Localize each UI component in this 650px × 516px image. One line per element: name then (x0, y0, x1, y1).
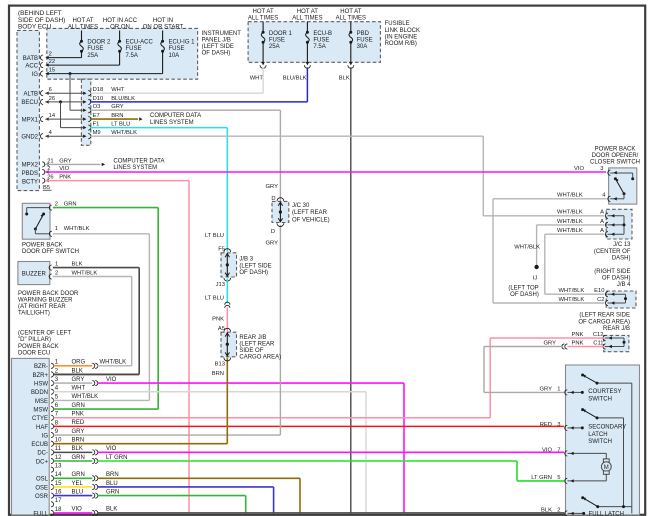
svg-text:14: 14 (55, 472, 62, 478)
svg-text:IG: IG (42, 433, 49, 439)
svg-text:E10: E10 (594, 288, 604, 294)
svg-text:DOOR ECU: DOOR ECU (18, 350, 50, 356)
wire VIO: PBDS to opener/closer switch pin 3 (45, 171, 606, 173)
svg-text:GND2: GND2 (21, 134, 38, 140)
wire RED: ECU pin 8 HAF to secondary latch switch (53, 425, 564, 427)
wire GRN: off switch pin 2 to ECU MSW (53, 207, 158, 209)
svg-text:HSW: HSW (34, 382, 48, 388)
svg-text:OF DASH): OF DASH) (202, 51, 231, 57)
svg-text:16: 16 (55, 490, 62, 496)
svg-text:BLU: BLU (72, 489, 84, 495)
svg-text:25A: 25A (87, 53, 98, 59)
wire WHT: ECU pin 4 BDDN down to bottom (53, 391, 366, 393)
J/B 4 pin E10 (605, 292, 608, 297)
buzzer (18, 262, 50, 285)
svg-text:25A: 25A (269, 44, 280, 50)
svg-text:(LEFT REAR SIDE: (LEFT REAR SIDE (579, 313, 630, 319)
svg-text:4: 4 (602, 193, 606, 199)
rear J/B pin C11 (603, 344, 606, 349)
svg-text:DASH): DASH) (612, 255, 631, 261)
J/B pin F1 LT BLU (83, 126, 86, 129)
svg-text:ECU-B: ECU-B (313, 31, 332, 37)
latch pin 2 (565, 511, 568, 516)
svg-text:J13: J13 (216, 282, 225, 288)
svg-text:REAR J/B: REAR J/B (239, 335, 266, 341)
J/B pin O3 GRY (83, 109, 86, 112)
latch pin 3 (565, 425, 568, 430)
svg-text:PNK: PNK (59, 175, 71, 181)
svg-text:D18: D18 (93, 87, 104, 93)
svg-text:2: 2 (55, 368, 59, 374)
svg-text:2: 2 (55, 202, 58, 208)
svg-text:YEL: YEL (72, 481, 84, 487)
svg-text:M9: M9 (93, 130, 101, 136)
svg-text:3: 3 (600, 166, 603, 172)
svg-text:(RIGHT SIDE: (RIGHT SIDE (594, 269, 630, 275)
svg-text:WHT/BLK: WHT/BLK (72, 394, 99, 400)
svg-text:GRY: GRY (540, 386, 553, 392)
wire: BECU branch down to F1 (60, 102, 62, 128)
latch inner rail (secondary/full) (597, 417, 624, 419)
svg-text:OF DASH): OF DASH) (239, 270, 268, 276)
svg-text:J/C 13: J/C 13 (613, 242, 631, 248)
wire GRY: O3 to J/C 30 (90, 109, 280, 111)
wire WHT/BLK: M9 to J/C 13 pin A (90, 135, 483, 137)
wire WHT/BLK: J/C 13 A to eyelet IJ (537, 224, 605, 226)
junction J/B 4 (606, 291, 636, 308)
svg-text:PANEL J/B: PANEL J/B (202, 37, 231, 43)
wire WHT/BLK: buzzer pin 2 to ECU BZR- (53, 276, 132, 278)
svg-text:ALL TIMES: ALL TIMES (336, 16, 366, 22)
svg-text:ACC: ACC (25, 63, 38, 69)
svg-text:SWITCH: SWITCH (588, 439, 612, 445)
wire: ALTB 6 to D18 (45, 92, 83, 94)
svg-text:TAILLIGHT): TAILLIGHT) (18, 311, 50, 317)
svg-text:FULL LATCH: FULL LATCH (589, 512, 624, 516)
fuse DOOR 2 25A (81, 31, 83, 42)
svg-text:BLU/BLK: BLU/BLK (111, 96, 135, 102)
svg-text:OF DASH): OF DASH) (510, 292, 539, 298)
svg-text:7.5A: 7.5A (126, 53, 138, 59)
svg-text:LT GRN: LT GRN (531, 475, 552, 481)
svg-text:1: 1 (55, 262, 58, 268)
svg-text:VIO: VIO (106, 446, 117, 452)
wire WHT/BLK: J/C 13 A to J/B 4 E10 (545, 233, 605, 235)
svg-text:GRY: GRY (111, 104, 124, 110)
wire VIO/BLK: ECU pin 18 FULL to full latch switch (53, 512, 92, 514)
svg-text:18: 18 (55, 507, 62, 513)
switch pin 2 (49, 205, 52, 210)
svg-text:FULL: FULL (33, 511, 48, 516)
svg-text:1: 1 (55, 226, 58, 232)
svg-text:BLK: BLK (339, 75, 350, 81)
svg-text:WHT: WHT (111, 87, 125, 93)
svg-text:BRN: BRN (72, 437, 85, 443)
svg-text:26: 26 (47, 175, 53, 181)
svg-text:E7: E7 (93, 113, 100, 119)
wire PNK: C12 row (490, 337, 604, 339)
svg-text:VIO: VIO (574, 166, 584, 172)
svg-text:5: 5 (557, 475, 560, 481)
svg-text:RED: RED (540, 422, 552, 428)
svg-text:ALL TIMES: ALL TIMES (68, 25, 98, 31)
svg-text:BRN: BRN (111, 113, 123, 119)
svg-text:OR ON: OR ON (110, 25, 130, 31)
svg-text:"D" PILLAR): "D" PILLAR) (18, 337, 51, 343)
J/C 13 pin A (605, 222, 608, 227)
wire: BECU 26 to D10 with junction (45, 101, 83, 103)
svg-text:PNK: PNK (72, 412, 84, 418)
wire YEL/BLU: ECU pin 15 OSE down to bottom (53, 486, 92, 488)
svg-text:LINES SYSTEM: LINES SYSTEM (150, 120, 194, 126)
svg-text:FUSE: FUSE (357, 38, 373, 44)
svg-text:2: 2 (49, 52, 52, 58)
power back door latch assembly (566, 365, 640, 515)
svg-text:GRN: GRN (106, 489, 119, 495)
svg-text:FUSE: FUSE (313, 38, 329, 44)
J/C 13 pin A (605, 213, 608, 218)
wire GRY: ECU pin 9 IG to J/C 30 (53, 434, 280, 436)
J/B 4 pin C2 (605, 300, 608, 305)
svg-text:WHT: WHT (72, 386, 86, 392)
body ECU connector box (17, 31, 39, 191)
svg-text:(AT RIGHT REAR: (AT RIGHT REAR (18, 304, 66, 310)
svg-text:GRY: GRY (544, 340, 557, 346)
latch inner rail (courtesy) (597, 382, 632, 384)
rear J/B pin C12 (603, 335, 606, 340)
svg-text:A: A (600, 210, 604, 216)
svg-text:FUSE: FUSE (269, 38, 285, 44)
svg-text:22: 22 (49, 59, 55, 65)
svg-text:FUSE: FUSE (169, 46, 185, 52)
svg-text:PNK: PNK (572, 332, 584, 338)
wire: GND2 4 to M9 (45, 135, 83, 137)
J/B pin D18 WHT (83, 92, 86, 95)
svg-text:BATB: BATB (23, 56, 38, 62)
svg-text:HOT AT: HOT AT (253, 9, 274, 15)
svg-text:FUSIBLE: FUSIBLE (385, 21, 410, 27)
svg-text:6: 6 (49, 87, 52, 93)
svg-text:GRY: GRY (72, 429, 85, 435)
svg-text:BLU/BLK: BLU/BLK (283, 75, 307, 81)
svg-text:LINES SYSTEM: LINES SYSTEM (113, 165, 157, 171)
svg-text:BRN: BRN (212, 371, 224, 377)
wire PNK: BCTY down to bottom (45, 180, 189, 182)
svg-text:OSL: OSL (36, 477, 49, 483)
wire PNK: inline connector down to rear J/B A5 (226, 307, 228, 331)
fusible link output connector (261, 62, 264, 65)
svg-text:VIO: VIO (106, 377, 117, 383)
svg-text:15: 15 (55, 481, 62, 487)
svg-text:7.5A: 7.5A (313, 44, 325, 50)
svg-text:7: 7 (55, 412, 59, 418)
wire WHT/BLK: off switch pin 1 to ECU MSE (53, 233, 149, 235)
svg-text:5: 5 (55, 394, 59, 400)
svg-text:ECU-IG 1: ECU-IG 1 (169, 40, 196, 46)
wire BLU/BLK: D10 to ECU-B fuse (90, 101, 307, 103)
svg-text:(LEFT REAR: (LEFT REAR (239, 341, 275, 347)
svg-text:CTYE: CTYE (32, 416, 48, 422)
svg-text:C11: C11 (593, 340, 603, 346)
wire PNK: ECU pin 7 CTYE to rear J/B C12 (53, 417, 490, 419)
wire BRN: E7 to computer data lines (90, 118, 138, 120)
wire WHT/BLK: ECU pin 5 MSE to off switch (53, 399, 149, 401)
svg-text:WARNING BUZZER: WARNING BUZZER (18, 297, 73, 303)
svg-text:COMPUTER DATA: COMPUTER DATA (150, 113, 201, 119)
svg-text:PNK: PNK (212, 317, 224, 323)
svg-text:OSR: OSR (35, 494, 49, 500)
svg-text:WHT/BLK: WHT/BLK (557, 193, 583, 199)
svg-text:7: 7 (557, 447, 560, 453)
J/B pin M9 WHT/BLK (83, 135, 86, 138)
latch motor M (568, 452, 607, 454)
svg-text:SECONDARY: SECONDARY (588, 425, 626, 431)
wire LT BLU: F1 down to J/B 3 (90, 127, 227, 129)
instrument panel J/B fuse box (47, 28, 198, 79)
svg-text:D10: D10 (93, 96, 104, 102)
wire BLK: ECU pin 2 BZR+ to buzzer (53, 373, 139, 375)
svg-text:DOOR 1: DOOR 1 (269, 31, 293, 37)
svg-text:(LEFT TOP: (LEFT TOP (508, 285, 538, 291)
wire GRN/LT GRN: ECU pin 12 DC+ to latch motor (53, 460, 92, 462)
wire WHT: D18 to DOOR1 fuse (90, 92, 263, 94)
svg-text:REAR J/B: REAR J/B (603, 326, 630, 332)
svg-text:C2: C2 (597, 297, 604, 303)
svg-text:VIO: VIO (72, 507, 83, 513)
svg-text:(CENTER OF: (CENTER OF (594, 249, 631, 255)
wire BRN: ECU pin 10 ECUB to rear J/B B13 (53, 443, 227, 445)
svg-text:O3: O3 (93, 104, 101, 110)
fuse ECU-IG 1 10A (162, 31, 164, 42)
svg-text:10: 10 (55, 438, 62, 444)
svg-text:FUSE: FUSE (87, 46, 103, 52)
svg-text:4: 4 (49, 130, 53, 136)
svg-text:SIDE OF: SIDE OF (239, 348, 263, 354)
latch pin 5 (565, 478, 568, 483)
ECU pin 17 (51, 502, 54, 507)
wire LT BLU: J13 down to inline connector (226, 278, 228, 303)
svg-text:21: 21 (47, 158, 53, 164)
fusible link block box (248, 22, 380, 63)
svg-text:2: 2 (47, 166, 50, 172)
wire GRY: MPX2 to computer data lines (45, 163, 100, 165)
svg-text:LT BLU: LT BLU (205, 233, 224, 239)
svg-text:D: D (271, 229, 275, 235)
svg-text:DOOR OFF SWITCH: DOOR OFF SWITCH (22, 249, 79, 255)
ECU pin 13 (51, 467, 54, 472)
svg-text:BLU: BLU (106, 481, 118, 487)
svg-text:8: 8 (55, 420, 59, 426)
svg-text:GRY: GRY (59, 158, 72, 164)
svg-text:HOT AT: HOT AT (297, 9, 318, 15)
fuse PBD 30A (350, 22, 352, 33)
svg-text:1: 1 (557, 386, 560, 392)
svg-text:12: 12 (55, 455, 62, 461)
svg-text:C12: C12 (593, 332, 604, 338)
svg-text:(IN ENGINE: (IN ENGINE (385, 35, 418, 41)
wire GRY/VIO: ECU pin 3 HSW down to bottom (53, 382, 92, 384)
svg-text:LATCH: LATCH (588, 432, 607, 438)
svg-text:14: 14 (49, 113, 56, 119)
svg-text:LINK BLOCK: LINK BLOCK (385, 28, 420, 34)
fusible link output connector (349, 62, 352, 65)
svg-text:BCTY: BCTY (22, 180, 38, 186)
svg-text:GRN: GRN (64, 202, 77, 208)
svg-text:ON OR START: ON OR START (143, 25, 184, 31)
wire WHT/BLK: opener pin 4 to J/B 4 C2 (493, 198, 607, 200)
svg-text:9: 9 (55, 429, 59, 435)
svg-text:BLK: BLK (106, 507, 117, 513)
svg-text:GRN: GRN (72, 472, 85, 478)
fuse ECU-ACC 7.5A (119, 31, 121, 42)
svg-text:POWER BACK: POWER BACK (595, 147, 636, 153)
svg-text:BDDN: BDDN (31, 390, 48, 396)
svg-text:BUZZER: BUZZER (22, 272, 47, 278)
svg-text:OF DASH): OF DASH) (602, 276, 631, 282)
svg-text:WHT/BLK: WHT/BLK (64, 226, 90, 232)
svg-text:LT BLU: LT BLU (205, 295, 224, 301)
svg-text:IG: IG (32, 72, 39, 78)
svg-text:LT GRN: LT GRN (106, 455, 127, 461)
svg-text:HOT IN ACC: HOT IN ACC (103, 18, 138, 24)
svg-text:WHT/BLK: WHT/BLK (557, 219, 583, 225)
inline connector GRY/PNK (562, 344, 565, 349)
svg-text:HAF: HAF (36, 425, 48, 431)
wire ORG/WHT-BLK: ECU pin 1 BZR- to buzzer (53, 365, 92, 367)
svg-text:WHT/BLK: WHT/BLK (557, 210, 583, 216)
power back door ECU box (12, 358, 50, 515)
svg-text:1: 1 (55, 360, 59, 366)
svg-text:ECUB: ECUB (31, 442, 48, 448)
svg-text:3: 3 (55, 377, 59, 383)
full latch switch (581, 496, 584, 499)
svg-text:11: 11 (55, 446, 62, 452)
svg-text:ECU-ACC: ECU-ACC (126, 40, 154, 46)
wire BLU/GRN: ECU pin 16 OSR down to bottom (53, 495, 92, 497)
svg-text:4: 4 (55, 386, 59, 392)
svg-text:HOT AT: HOT AT (340, 9, 361, 15)
svg-text:ALL TIMES: ALL TIMES (292, 16, 322, 22)
svg-text:BECU: BECU (21, 100, 38, 106)
fusible link output connector (306, 62, 309, 65)
svg-text:M: M (604, 465, 609, 471)
svg-text:GRN: GRN (72, 455, 85, 461)
wire: MPX1 14 to E7 (45, 118, 83, 120)
svg-text:COURTESY: COURTESY (588, 389, 621, 395)
buzzer pin 1 (49, 265, 52, 270)
svg-text:BRN: BRN (106, 472, 119, 478)
svg-text:DOOR 2: DOOR 2 (87, 40, 111, 46)
svg-text:6: 6 (55, 403, 59, 409)
svg-text:HOT IN: HOT IN (153, 18, 173, 24)
svg-text:DOOR OPENER/: DOOR OPENER/ (592, 153, 639, 159)
switch pin 1 (49, 231, 52, 236)
svg-text:BLK: BLK (72, 368, 83, 374)
svg-text:A: A (600, 228, 604, 234)
wire BLK/VIO: ECU pin 11 DC- to latch motor (53, 451, 92, 453)
svg-text:VIO: VIO (542, 447, 552, 453)
svg-text:BLK: BLK (72, 446, 83, 452)
svg-text:30A: 30A (357, 44, 368, 50)
svg-text:BLK: BLK (72, 262, 83, 268)
junction rear J/B (C12/C11) (604, 335, 629, 351)
svg-text:POWER BACK DOOR: POWER BACK DOOR (18, 291, 79, 297)
svg-text:ROOM R/B): ROOM R/B) (385, 41, 417, 47)
svg-text:PNK: PNK (572, 340, 584, 346)
svg-text:OSE: OSE (35, 485, 48, 491)
svg-text:PBD: PBD (357, 31, 370, 37)
svg-text:PBDS: PBDS (22, 171, 38, 177)
fuse ECU-B 7.5A (306, 22, 308, 33)
inline connector LT BLU / PNK (225, 302, 230, 305)
svg-text:COMPUTER DATA: COMPUTER DATA (113, 159, 164, 165)
svg-text:LT BLU: LT BLU (111, 122, 130, 128)
svg-text:WHT/BLK: WHT/BLK (100, 360, 127, 366)
wire PNK: C11 to inline connector (568, 346, 605, 348)
svg-text:26: 26 (49, 96, 55, 102)
eyelet IJ (left top of dash) (534, 265, 538, 269)
svg-text:WHT/BLK: WHT/BLK (514, 244, 540, 250)
J/B pin E7 BRN (83, 117, 86, 120)
svg-text:MPX1: MPX1 (22, 117, 39, 123)
svg-text:ALL TIMES: ALL TIMES (248, 16, 278, 22)
svg-text:WHT/BLK: WHT/BLK (559, 297, 585, 303)
svg-text:J/C 30: J/C 30 (292, 203, 310, 209)
svg-text:(LEFT SIDE: (LEFT SIDE (239, 263, 271, 269)
wire: IG branch down to O3 (69, 72, 72, 75)
svg-text:17: 17 (55, 498, 62, 504)
svg-text:FUSE: FUSE (126, 46, 142, 52)
svg-text:POWER BACK: POWER BACK (22, 242, 63, 248)
junction J/C 13 (606, 209, 632, 239)
svg-text:CARGO AREA): CARGO AREA) (239, 355, 281, 361)
svg-text:IJ: IJ (533, 275, 538, 281)
svg-text:WHT: WHT (250, 75, 264, 81)
svg-text:F1: F1 (93, 122, 100, 128)
svg-text:BZR+: BZR+ (32, 373, 48, 379)
latch pin 1 (565, 390, 568, 395)
svg-text:OF VEHICLE): OF VEHICLE) (292, 217, 330, 223)
svg-text:10A: 10A (169, 53, 180, 59)
svg-text:RED: RED (72, 420, 85, 426)
fuse DOOR 1 25A (262, 22, 264, 33)
buzzer pin 2 (49, 274, 52, 279)
instrument panel J/B connector strip (81, 79, 90, 145)
wire GRY: C11 to courtesy switch (484, 346, 563, 348)
svg-text:GRN: GRN (72, 403, 85, 409)
svg-text:BLK: BLK (541, 507, 552, 513)
svg-text:OF CARGO AREA): OF CARGO AREA) (578, 319, 630, 325)
svg-text:J/B 3: J/B 3 (239, 257, 253, 263)
svg-text:MSE: MSE (35, 399, 48, 405)
svg-text:WHT/BLK: WHT/BLK (72, 270, 98, 276)
wire BLK: PBD fuse down to bottom (350, 67, 352, 514)
svg-text:DC-: DC- (37, 451, 48, 457)
svg-text:GRY: GRY (266, 184, 279, 190)
svg-text:B13: B13 (215, 362, 225, 368)
wire BLK: buzzer pin 1 to ECU BZR+ (53, 267, 139, 269)
svg-text:ORG: ORG (72, 360, 86, 366)
power back door opener/closer switch (609, 168, 637, 204)
svg-text:BZR-: BZR- (34, 364, 48, 370)
svg-text:(LEFT SIDE: (LEFT SIDE (202, 44, 234, 50)
svg-text:GRY: GRY (72, 377, 85, 383)
svg-text:A: A (600, 219, 604, 225)
courtesy switch (581, 374, 584, 377)
svg-text:DC+: DC+ (36, 459, 49, 465)
svg-text:GRY: GRY (266, 240, 279, 246)
svg-text:15: 15 (49, 68, 55, 74)
